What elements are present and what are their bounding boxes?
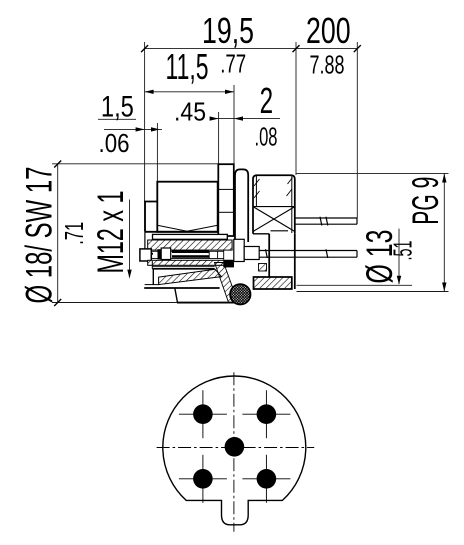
oblique ticks (54, 45, 361, 306)
socket lip front (140, 249, 151, 261)
svg-text:.51: .51 (388, 241, 418, 261)
dimension 2 line (211, 118, 280, 120)
extension line x296 (19,5/200 divider) (295, 42, 297, 175)
contact black elements (148, 253, 154, 255)
arrowheads (127, 90, 446, 292)
hex bottom edge (145, 231, 218, 233)
pin 5 center (225, 437, 245, 457)
hex mirror facet lines (152, 265, 214, 267)
PG9 top extension (297, 172, 449, 174)
pins (193, 404, 276, 488)
dome ring (235, 169, 248, 242)
svg-text:.71: .71 (59, 222, 89, 245)
dia18 bottom extension (52, 302, 220, 304)
pin 4 bottom-left (193, 469, 213, 489)
flange bottom chamfer (175, 288, 178, 303)
flange bottom edge (177, 302, 234, 304)
wires lower pair (259, 249, 357, 258)
insulator hatch band lower (148, 260, 232, 265)
diagonal hatch band to gasket (215, 263, 239, 303)
svg-text:200: 200 (306, 10, 351, 51)
extension line x234 (11,5 right) (233, 85, 235, 188)
PG9 arrows (442, 174, 446, 183)
svg-text:7.88: 7.88 (310, 50, 345, 80)
extension line left x144.6 (144, 42, 146, 202)
terminal step A (234, 239, 244, 261)
front lip (145, 202, 157, 232)
hex flange strip dia18/SW17 (218, 164, 234, 236)
svg-text:.45: .45 (174, 97, 206, 127)
extension line x219 (2 left) (218, 112, 220, 164)
dimension 1,5 line (104, 128, 162, 130)
svg-text:M12 x 1: M12 x 1 (89, 191, 131, 274)
PG9 rear body lower sectioned (254, 234, 295, 289)
dia18 dim line (57, 164, 59, 303)
svg-text:2: 2 (260, 80, 274, 121)
front face below lip (144, 232, 146, 249)
pin 1 top-left (193, 404, 213, 424)
lower-left shell step (152, 269, 154, 285)
center lines (157, 372, 315, 531)
svg-text:.08: .08 (255, 121, 278, 151)
PG9 rear body upper (253, 175, 295, 234)
hex body SW17 side view (157, 182, 217, 232)
pin 3 bottom-right (257, 469, 277, 489)
connector face outline with keyway tab (163, 376, 306, 525)
11,5 arrows inward tips at ends (145, 90, 154, 94)
gasket (230, 284, 250, 304)
svg-text:Ø 18/ SW 17: Ø 18/ SW 17 (18, 167, 60, 304)
insulator hatch band upper (148, 240, 232, 250)
dimension 11,5 line (145, 91, 234, 93)
dia13 leader arrow up (397, 276, 401, 285)
chamfer hatch band (159, 269, 222, 284)
M12x1 leader line (129, 200, 131, 278)
PG9 bottom extension (297, 291, 449, 293)
dimension 19,5 / 200 shared dimension line (52, 42, 449, 303)
svg-text:.77: .77 (220, 49, 246, 79)
washer (153, 234, 228, 239)
extension line x356.6 (200 right) (356, 42, 358, 218)
svg-text:.06: .06 (99, 128, 130, 158)
extension line x157.4 (1,5 right) (156, 123, 158, 182)
svg-text:11,5: 11,5 (166, 46, 209, 87)
hatch wedge under terminal (259, 264, 267, 272)
contact bore (151, 250, 223, 252)
dia18 top extension (52, 163, 220, 165)
1,5 outside arrows (136, 127, 145, 131)
svg-text:19,5: 19,5 (202, 10, 254, 51)
terminal step B (244, 247, 259, 260)
2 outside arrows (210, 116, 219, 120)
wires upper pair (295, 217, 357, 226)
svg-text:1,5: 1,5 (101, 91, 134, 124)
pin crosses (179, 390, 291, 503)
PG9 dim line (443, 174, 445, 292)
M12 leader arrow down (127, 270, 131, 279)
o-ring black square (223, 260, 234, 268)
dia13 leader line (398, 229, 400, 284)
svg-text:PG 9: PG 9 (404, 177, 446, 225)
pin 2 top-right (257, 404, 277, 424)
1,5 text underline (98, 118, 136, 120)
